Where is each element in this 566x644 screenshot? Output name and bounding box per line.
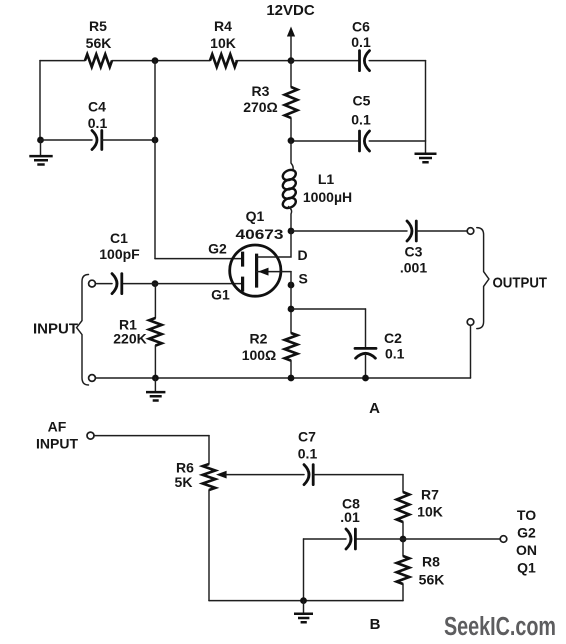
svg-text:R5: R5 — [89, 18, 107, 34]
svg-text:100Ω: 100Ω — [242, 347, 277, 363]
svg-text:R4: R4 — [214, 18, 232, 34]
svg-text:R8: R8 — [422, 554, 440, 570]
svg-text:10K: 10K — [210, 35, 236, 51]
svg-text:C5: C5 — [353, 93, 371, 109]
svg-text:1000µH: 1000µH — [303, 189, 352, 205]
svg-text:R2: R2 — [250, 331, 268, 347]
junction dot G1 node — [152, 280, 159, 287]
junction dot C2 bottom — [362, 375, 369, 382]
wire C6 to right rail — [369, 60, 425, 62]
wire R3 node to C5 — [291, 140, 360, 142]
output brace and label OUTPUT — [477, 228, 547, 329]
wire input to C1 — [95, 283, 112, 285]
svg-text:SeekIC.com: SeekIC.com — [444, 613, 556, 641]
wire junction to terminal — [403, 538, 500, 540]
svg-text:OUTPUT: OUTPUT — [493, 275, 548, 292]
input terminal top — [89, 280, 96, 287]
capacitor C4 — [88, 99, 108, 150]
wire between R5 and R4 — [112, 60, 210, 62]
svg-text:0.1: 0.1 — [351, 112, 371, 128]
resistor R5 — [85, 18, 112, 67]
svg-text:C7: C7 — [298, 429, 316, 445]
capacitor C1 — [99, 230, 140, 294]
junction dot drain node — [288, 228, 295, 235]
capacitor C5 — [351, 93, 371, 152]
wire af input horizontal — [94, 435, 209, 437]
svg-text:.01: .01 — [340, 509, 360, 525]
junction dot R3/L1/C5 node — [288, 137, 295, 144]
resistor R2 — [242, 331, 298, 364]
wire R2 bottom stem — [290, 361, 292, 378]
wire C5 to right rail — [369, 140, 425, 142]
svg-text:40673: 40673 — [236, 226, 284, 242]
wire C4 to mid rail — [102, 139, 155, 141]
wire G1 lead — [122, 283, 243, 285]
svg-text:Q1: Q1 — [246, 208, 265, 224]
svg-text:ON: ON — [516, 542, 537, 558]
potentiometer R6 — [175, 460, 227, 491]
label AF INPUT — [36, 419, 78, 452]
svg-text:270Ω: 270Ω — [243, 99, 278, 115]
svg-text:5K: 5K — [175, 474, 193, 490]
svg-text:0.1: 0.1 — [298, 446, 318, 462]
ground input rail — [146, 378, 165, 401]
wire C8 left riser — [303, 539, 305, 601]
svg-text:INPUT: INPUT — [36, 436, 78, 452]
svg-text:.001: .001 — [400, 260, 427, 276]
wire R4 to 12VDC node — [236, 60, 291, 62]
svg-text:G1: G1 — [211, 287, 230, 303]
wire R6 top stem — [208, 436, 210, 464]
junction dot R7 R8 C8 — [400, 536, 407, 543]
svg-text:S: S — [299, 271, 308, 287]
junction dot R2 bottom — [288, 375, 295, 382]
wire left rail vertical — [39, 61, 41, 140]
svg-text:C3: C3 — [405, 244, 423, 260]
svg-text:56K: 56K — [86, 35, 112, 51]
wire G2 lead — [155, 258, 243, 260]
capacitor C8 — [340, 496, 360, 550]
svg-text:R7: R7 — [421, 487, 439, 503]
junction dot 12VDC node — [288, 57, 295, 64]
svg-text:0.1: 0.1 — [385, 346, 405, 362]
svg-text:56K: 56K — [419, 572, 445, 588]
wire R3 to L1 node — [290, 118, 292, 140]
junction dot C2 branch — [288, 306, 295, 313]
junction dot left rail C4 — [37, 137, 44, 144]
svg-text:0.1: 0.1 — [351, 34, 371, 50]
svg-text:G2: G2 — [208, 241, 227, 257]
capacitor C2 — [355, 309, 405, 378]
svg-text:AF: AF — [48, 419, 67, 435]
svg-text:C2: C2 — [384, 330, 402, 346]
input terminal bottom — [89, 375, 96, 382]
wire drain node to C3 — [291, 230, 407, 232]
resistor R7 — [397, 487, 443, 523]
svg-text:B: B — [370, 616, 381, 633]
wire source node down to R2 — [290, 272, 292, 333]
svg-text:TO: TO — [517, 507, 536, 523]
svg-text:220K: 220K — [113, 331, 146, 347]
label TO G2 ON Q1 — [516, 507, 537, 576]
resistor R3 — [243, 83, 297, 118]
12VDC supply arrow — [266, 2, 315, 61]
wire mid rail vertical — [154, 61, 156, 259]
svg-text:12VDC: 12VDC — [266, 2, 315, 19]
af input terminal — [87, 432, 94, 439]
wire 12VDC node to R3 — [290, 61, 292, 87]
svg-text:L1: L1 — [318, 171, 335, 187]
input brace and label INPUT — [33, 275, 89, 386]
wire 12VDC node to C6 — [291, 60, 360, 62]
terminal output bottom — [467, 319, 474, 326]
terminal output top — [467, 228, 474, 235]
resistor R4 — [210, 18, 237, 67]
svg-text:10K: 10K — [417, 504, 443, 520]
ground left rail — [29, 140, 52, 165]
wire top rail left segment — [40, 60, 85, 62]
wire wiper to C7 — [226, 474, 304, 476]
inductor L1 — [281, 141, 352, 231]
junction dot source node — [288, 282, 295, 289]
wire C8 left horizontal — [304, 538, 347, 540]
capacitor C3 — [400, 221, 427, 276]
svg-text:Q1: Q1 — [517, 560, 536, 576]
wire C8 to junction — [355, 538, 403, 540]
transistor Q1 40673 — [208, 208, 308, 303]
svg-text:C6: C6 — [352, 19, 370, 35]
svg-text:G2: G2 — [517, 525, 536, 541]
wire ground node to C4 — [41, 139, 93, 141]
resistor R8 — [397, 539, 445, 601]
capacitor C7 — [298, 429, 318, 485]
ground right rail — [415, 141, 437, 162]
wire R6 bottom to rail B — [208, 490, 210, 601]
resistor R1 — [113, 284, 161, 378]
ground B — [294, 601, 313, 623]
svg-text:C1: C1 — [110, 230, 128, 246]
junction dot ground B — [300, 597, 307, 604]
svg-text:100pF: 100pF — [99, 246, 140, 262]
svg-text:C4: C4 — [88, 99, 106, 115]
svg-text:INPUT: INPUT — [33, 321, 78, 338]
terminal to G2 — [500, 536, 507, 543]
wire output bottom riser — [470, 325, 472, 378]
svg-text:A: A — [369, 400, 380, 417]
wire bottom rail B — [209, 600, 403, 602]
wire bottom rail A — [95, 377, 470, 379]
capacitor C6 — [351, 19, 371, 71]
svg-text:D: D — [298, 247, 308, 263]
junction dot top rail at mid branch — [152, 57, 159, 64]
svg-text:R3: R3 — [252, 83, 270, 99]
junction dot R1 ground — [152, 375, 159, 382]
wire C2 branch — [291, 308, 366, 310]
wire C3 to output terminal — [416, 230, 467, 232]
wire R7 to junction — [402, 522, 404, 539]
wire C7 to R7 corner — [313, 474, 403, 476]
wire R7 top stem — [402, 475, 404, 492]
wire right rail vertical — [425, 61, 427, 141]
svg-text:0.1: 0.1 — [88, 115, 108, 131]
junction dot mid rail C4 — [152, 137, 159, 144]
